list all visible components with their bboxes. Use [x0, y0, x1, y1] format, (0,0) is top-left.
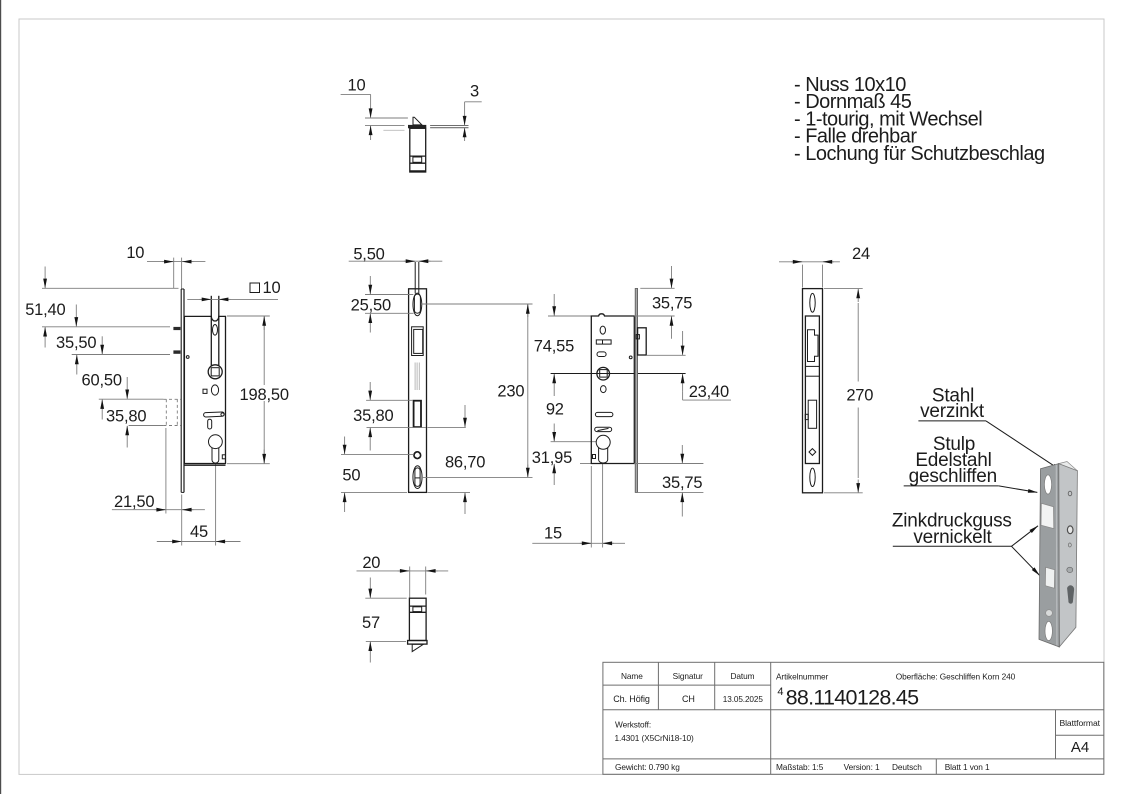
- bolt rear: [808, 400, 816, 428]
- svg-text:198,50: 198,50: [240, 386, 289, 404]
- small square near case edge: [222, 455, 225, 459]
- stulp plate: [803, 289, 823, 493]
- svg-text:270: 270: [846, 387, 873, 405]
- small square: [593, 455, 596, 459]
- svg-text:Name: Name: [621, 671, 643, 681]
- tiny hole: [186, 356, 189, 359]
- nut region lines: [805, 365, 819, 367]
- 3D stulp top oval: [1044, 475, 1051, 494]
- svg-text:Maßstab: 1:5: Maßstab: 1:5: [776, 762, 824, 772]
- dim square10 line: [187, 298, 278, 300]
- svg-text:35,80: 35,80: [353, 407, 393, 425]
- svg-text:21,50: 21,50: [114, 493, 154, 511]
- svg-text:35,80: 35,80: [106, 408, 146, 426]
- svg-text:CH: CH: [682, 694, 695, 704]
- 3D latch block: [1041, 503, 1054, 528]
- svg-text:4: 4: [777, 686, 783, 698]
- nut centre line: [551, 373, 686, 375]
- svg-text:88.1140128.45: 88.1140128.45: [786, 686, 920, 710]
- bolt opening: [414, 401, 421, 427]
- extension line D: [99, 398, 164, 400]
- svg-text:24: 24: [852, 245, 870, 263]
- stulp edge-on: [635, 289, 637, 493]
- svg-text:25,50: 25,50: [351, 297, 391, 315]
- channel oval: [213, 325, 218, 336]
- nut channel: [210, 296, 212, 366]
- svg-text:3: 3: [470, 83, 479, 101]
- svg-text:Blatt 1 von 1: Blatt 1 von 1: [945, 762, 990, 772]
- 3D case side face: [1059, 464, 1078, 647]
- diamond hole: [414, 452, 421, 459]
- slot with divider: [596, 340, 611, 344]
- svg-text:35,50: 35,50: [56, 334, 96, 352]
- latch triangle: [413, 117, 422, 125]
- svg-text:35,75: 35,75: [662, 474, 702, 492]
- svg-text:20: 20: [362, 554, 380, 572]
- svg-text:vernickelt: vernickelt: [913, 527, 992, 548]
- dim 3 leader: [465, 101, 482, 103]
- top screw slot: [413, 293, 422, 316]
- svg-text:92: 92: [546, 401, 564, 419]
- cylinder centre line: [551, 441, 597, 443]
- small oval hole top: [600, 326, 605, 334]
- spring hairlines: [414, 363, 416, 391]
- diamond hole: [809, 449, 816, 456]
- case front faint line: [383, 129, 404, 131]
- dim square10 symbol: [250, 283, 260, 293]
- 3D small circle: [1046, 610, 1053, 617]
- stulp plate: [409, 289, 427, 493]
- tiny hole: [629, 356, 632, 359]
- svg-text:- Lochung für Schutzbeschlag: - Lochung für Schutzbeschlag: [794, 143, 1045, 165]
- svg-text:50: 50: [342, 467, 360, 485]
- mounting tab upper: [173, 327, 180, 330]
- svg-text:verzinkt: verzinkt: [920, 401, 985, 422]
- capsule slot 2: [595, 427, 612, 431]
- lock case bottom section: [409, 598, 426, 640]
- small oval hole: [211, 385, 218, 395]
- svg-text:10: 10: [348, 77, 366, 95]
- small vertical slot: [208, 419, 212, 429]
- stulp front extension line: [365, 124, 405, 126]
- stulp plate section: [408, 641, 427, 645]
- svg-text:74,55: 74,55: [534, 338, 574, 356]
- horizontal slot: [204, 412, 225, 417]
- svg-text:10: 10: [263, 279, 281, 297]
- svg-text:Blattformat: Blattformat: [1059, 718, 1100, 728]
- svg-text:Gewicht: 0.790 kg: Gewicht: 0.790 kg: [615, 762, 680, 772]
- svg-text:13.05.2025: 13.05.2025: [723, 695, 764, 704]
- bottom screw slot: [413, 466, 422, 489]
- case behind: [805, 316, 819, 464]
- svg-text:Signatur: Signatur: [673, 671, 703, 681]
- svg-text:31,95: 31,95: [532, 449, 572, 467]
- svg-text:Datum: Datum: [731, 671, 755, 681]
- latch triangle: [412, 644, 423, 651]
- dim 20 line: [357, 570, 449, 572]
- cylinder hole: [596, 435, 610, 449]
- stulp edge-on: [180, 289, 182, 492]
- svg-text:Oberfläche: Geschliffen Korn: Oberfläche: Geschliffen Korn 240: [896, 671, 1016, 681]
- svg-text:35,75: 35,75: [652, 295, 692, 313]
- latch opening: [412, 327, 424, 356]
- svg-text:Werkstoff:: Werkstoff:: [615, 719, 651, 729]
- extension line B: [42, 326, 170, 328]
- mounting tab lower: [173, 350, 180, 353]
- stulp section bar: [408, 125, 426, 128]
- svg-text:23,40: 23,40: [689, 383, 729, 401]
- small square hole: [203, 389, 207, 393]
- bottom slot: [810, 468, 815, 486]
- extension line A (stulp top): [42, 287, 179, 289]
- svg-text:Ch. Höfig: Ch. Höfig: [613, 694, 650, 704]
- stulp section right: [430, 125, 468, 127]
- extension line E: [129, 425, 164, 427]
- svg-text:45: 45: [190, 523, 208, 541]
- svg-text:51,40: 51,40: [25, 301, 65, 319]
- lock case outline: [591, 314, 634, 464]
- svg-text:geschliffen: geschliffen: [909, 466, 997, 487]
- svg-text:60,50: 60,50: [82, 372, 122, 390]
- svg-text:Artikelnummer: Artikelnummer: [776, 671, 829, 681]
- 3D bolt: [1045, 567, 1054, 588]
- latch edges above stulp: [414, 262, 416, 293]
- svg-text:1.4301 (X5CrNi18-10): 1.4301 (X5CrNi18-10): [615, 733, 695, 743]
- dim 10 leader: [341, 93, 371, 95]
- latch rear: [808, 330, 819, 362]
- cylinder hole (Profilzylinder): [209, 435, 223, 449]
- page left edge: [0, 0, 2, 794]
- dashed hidden box: [165, 399, 167, 425]
- dim 20 extension lines: [409, 567, 411, 598]
- 3D case top face: [1059, 462, 1078, 473]
- svg-text:15: 15: [544, 525, 562, 543]
- dim 10 line: [147, 261, 205, 263]
- small oval below nut: [601, 386, 607, 393]
- svg-text:57: 57: [362, 614, 380, 632]
- extension line C: [72, 354, 170, 356]
- lock case section: [410, 128, 426, 172]
- svg-text:A4: A4: [1071, 739, 1089, 756]
- capsule slot: [595, 412, 613, 416]
- svg-text:10: 10: [126, 244, 144, 262]
- latch tip extension line: [365, 117, 408, 119]
- svg-text:86,70: 86,70: [445, 454, 485, 472]
- nut (Nuss): [208, 365, 222, 379]
- dim 198,50: [227, 315, 270, 317]
- nut (Nuss): [597, 367, 610, 380]
- svg-text:Version: 1: Version: 1: [844, 762, 880, 772]
- 3D stulp front face: [1039, 464, 1059, 647]
- dim 57 lines: [365, 597, 406, 599]
- 3D latch at top: [1061, 469, 1075, 481]
- title block: [603, 662, 1104, 774]
- 3D case marks: [1068, 491, 1072, 496]
- svg-text:Deutsch: Deutsch: [892, 762, 922, 772]
- 3D bottom oval: [1045, 621, 1052, 640]
- dim 5,50 line: [349, 260, 443, 262]
- top slot: [810, 293, 815, 312]
- small capsule: [597, 352, 606, 357]
- latch protruding: [638, 328, 647, 355]
- lock case outline: [184, 316, 225, 463]
- svg-text:230: 230: [497, 383, 524, 401]
